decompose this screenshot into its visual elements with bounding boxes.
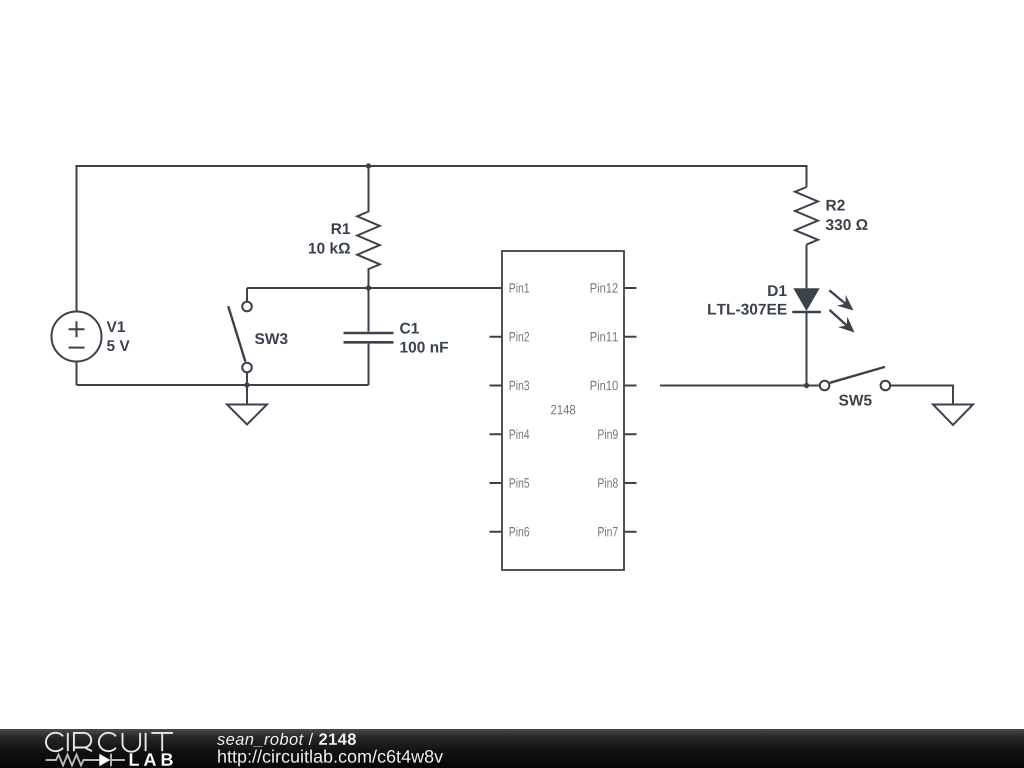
label 2148: [551, 405, 575, 415]
junction: node B (D1/Pin10/SW5): [804, 383, 809, 388]
IC U1 box: [502, 251, 624, 570]
footer bar: [0, 729, 1024, 768]
CircuitLab logo LAB: [130, 753, 173, 765]
ground (below SW3): [227, 385, 267, 425]
junction: node A (R1/C1/Pin1): [366, 285, 371, 290]
label D1: [768, 285, 786, 296]
pin Pin6: [490, 527, 530, 537]
wire: R2 to D1: [806, 245, 808, 289]
CircuitLab logo resistor-diode line: [46, 754, 125, 766]
pin Pin3: [490, 380, 530, 390]
pin Pin9: [598, 429, 636, 439]
resistor R1: [357, 166, 380, 288]
resistor R2: [795, 187, 818, 245]
label V1 value 5 V: [107, 340, 130, 351]
pin Pin10: [591, 380, 637, 390]
voltage source V1: [52, 312, 102, 362]
pin Pin11: [591, 332, 637, 342]
CircuitLab logo CIRCUIT: [46, 733, 173, 752]
switch SW5: [820, 367, 890, 390]
pin Pin7: [598, 527, 636, 537]
label R2: [827, 200, 845, 211]
pin Pin4: [490, 429, 530, 439]
label V1: [107, 321, 125, 332]
label R2 value 330 Ω: [826, 219, 868, 230]
label SW5: [839, 395, 872, 406]
pin Pin5: [490, 478, 530, 488]
footer title sean_robot / 2148: [217, 733, 356, 747]
label D1 part LTL-307EE: [708, 304, 786, 315]
pin Pin12: [591, 283, 637, 293]
label C1 value 100 nF: [400, 342, 448, 353]
label R1 value 10 kΩ: [309, 242, 350, 253]
junction: top rail / R1: [366, 163, 371, 168]
ground (right): [933, 405, 973, 426]
label C1: [400, 323, 419, 334]
LED D1 light arrows: [829, 290, 854, 332]
wire: D1 to node B: [806, 311, 808, 386]
pin Pin2: [490, 332, 530, 342]
junction: bottom rail / SW3 / ground: [244, 382, 249, 387]
CircuitLab logo diode triangle: [99, 754, 110, 766]
wire: SW5 to ground stub: [890, 386, 953, 405]
pin Pin8: [598, 478, 636, 488]
LED D1: [792, 288, 821, 312]
footer url: [218, 750, 443, 767]
capacitor C1: [344, 288, 394, 385]
label R1: [332, 223, 350, 234]
label SW3: [255, 333, 288, 344]
wire: V+ rail (V1 top, top rail, drop to R2): [77, 166, 807, 312]
wire: node A rail (SW3 to IC Pin1): [247, 287, 502, 289]
pin Pin1: [510, 283, 529, 293]
wire: Pin10 net to node B: [660, 385, 820, 387]
wire: bottom rail: [77, 384, 369, 386]
switch SW3: [228, 288, 252, 385]
wire: V1 bottom: [76, 362, 78, 386]
